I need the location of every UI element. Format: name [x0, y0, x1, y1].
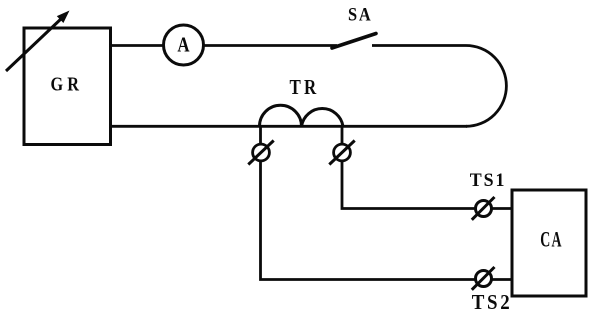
- svg-text:CA: CA: [540, 226, 563, 251]
- svg-text:TS2: TS2: [472, 290, 513, 314]
- connector TS1: [472, 197, 495, 220]
- bottom wire: loop back to GR: [109, 125, 467, 128]
- load CA box: [512, 190, 586, 296]
- wire: right tap down and right to TS1: [342, 126, 512, 209]
- connector TS2: [472, 267, 495, 290]
- svg-text:SA: SA: [348, 6, 373, 26]
- switch SA lever: [332, 34, 376, 49]
- wire: ammeter to switch: [203, 44, 337, 47]
- transformer TR winding: [260, 105, 344, 126]
- connector on left tap: [248, 141, 273, 165]
- generator GR box: [24, 28, 111, 145]
- svg-text:A: A: [177, 33, 190, 57]
- svg-text:TR: TR: [290, 75, 320, 99]
- wire: GR to ammeter: [109, 44, 164, 47]
- connector on right tap: [329, 141, 354, 165]
- svg-text:GR: GR: [51, 74, 84, 96]
- variability arrow through GR corner: [6, 11, 70, 72]
- ammeter A circle: [164, 25, 204, 65]
- wire: switch to U-turn loop: [372, 46, 506, 127]
- svg-text:TS1: TS1: [470, 170, 507, 191]
- wire: left tap down and right to TS2: [261, 126, 513, 280]
